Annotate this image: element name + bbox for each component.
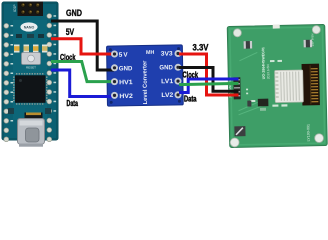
wire 5V red (nano to converter) (51, 39, 115, 54)
mounting hole BL (230, 138, 239, 147)
svg-text:3.3V: 3.3V (193, 43, 209, 53)
mounting hole TL (233, 29, 241, 37)
svg-text:GND: GND (119, 65, 133, 72)
left pin row (4, 23, 9, 141)
silkscreen bits (245, 60, 287, 108)
svg-text:3V3: 3V3 (161, 50, 174, 57)
mini USB connector (18, 119, 45, 147)
svg-text:5V: 5V (66, 27, 75, 37)
NANO oval label (20, 22, 37, 31)
mounting hole TR (312, 26, 320, 34)
small caps near usb (8, 108, 14, 114)
trace details (237, 52, 266, 115)
wire GND black (nano to converter) (51, 21, 115, 70)
mounting hole BR (315, 134, 324, 143)
smd part top-right (304, 40, 313, 48)
svg-text:HV2: HV2 (119, 93, 133, 100)
pin labels left: 5V GND HV1 HV2 (119, 51, 134, 100)
converter right pads (175, 50, 182, 98)
wire GND black (converter to oled) (179, 68, 239, 92)
svg-text:LY190-091: LY190-091 (306, 124, 310, 141)
svg-text:UG-2864HSWEG01: UG-2864HSWEG01 (261, 47, 266, 79)
svg-text:NANO: NANO (24, 26, 35, 30)
OLED module U3 (green pcb) (227, 23, 328, 147)
level converter module U2 (107, 45, 184, 106)
MCU chip (14, 74, 47, 104)
pin label silkscreen dots (11, 15, 57, 121)
ic bottom (258, 99, 269, 107)
svg-text:MH: MH (146, 50, 155, 56)
svg-text:24P 8-5N: 24P 8-5N (310, 34, 314, 47)
fpc connector (275, 70, 304, 103)
svg-text:LV1: LV1 (161, 78, 174, 85)
wire Data blue (nano to converter) (51, 70, 115, 97)
svg-text:LV2: LV2 (161, 92, 174, 99)
svg-text:5V: 5V (119, 52, 129, 59)
reset button (22, 53, 41, 65)
svg-text:GND: GND (66, 8, 82, 18)
pcb body (2, 2, 58, 140)
svg-text:2013.6-5N: 2013.6-5N (266, 64, 270, 80)
top edge notch (273, 24, 280, 28)
oled flex cable (302, 64, 320, 106)
right pin row (47, 14, 52, 142)
svg-text:RESET: RESET (26, 66, 36, 70)
input header pins (233, 77, 240, 99)
corner holes (109, 48, 112, 51)
smd part top-left (244, 41, 253, 49)
Arduino Nano U1 (2, 2, 58, 147)
pin labels right: 3V3 GND LV1 LV2 (159, 50, 174, 99)
smd bottom-left (234, 126, 245, 136)
pcb body (227, 24, 327, 147)
wire Clock green (converter to oled) (179, 83, 239, 84)
svg-text:GND: GND (159, 64, 173, 71)
svg-text:HV1: HV1 (119, 79, 133, 86)
small smd parts (16, 34, 22, 38)
usb pin block (25, 113, 43, 120)
LED/resistor row (14, 45, 48, 53)
ICSP header J1 (18, 2, 44, 17)
converter left pads (111, 51, 118, 99)
wire 3.3V red (converter to oled) (179, 54, 239, 95)
svg-text:Data: Data (184, 94, 197, 104)
svg-text:Data: Data (67, 98, 79, 108)
wire Data blue (converter to oled) (179, 79, 239, 93)
svg-text:Clock: Clock (183, 70, 199, 80)
wire Clock green (nano to converter) (51, 62, 115, 82)
svg-text:ICSP: ICSP (13, 5, 17, 12)
svg-text:Level Converter: Level Converter (142, 60, 149, 105)
